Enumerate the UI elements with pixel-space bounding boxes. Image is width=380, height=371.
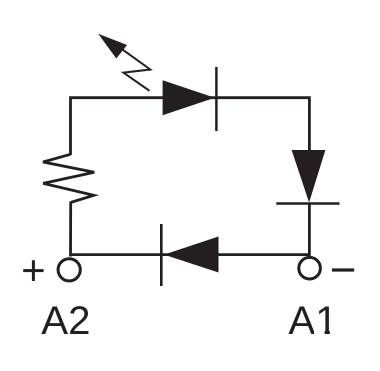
terminal A1 circle	[299, 257, 321, 279]
diode D2 cathode bar	[276, 202, 339, 205]
LED D1 cathode bar	[215, 67, 218, 131]
plus sign	[23, 260, 43, 281]
LED D1 triangle	[163, 80, 215, 115]
wire bottom horizontal	[71, 253, 310, 256]
terminal A2 circle	[58, 259, 80, 281]
diode D3 triangle	[164, 237, 219, 273]
LED arrow shaft	[122, 49, 151, 91]
resistor R	[43, 154, 94, 202]
mask foot serif of digit 1	[314, 331, 325, 336]
diode D2 triangle	[292, 150, 326, 203]
minus sign	[332, 268, 354, 271]
wire top: left corner up, across, right corner down	[71, 98, 310, 155]
wire right vertical below diode	[308, 203, 311, 256]
wire left vertical below resistor	[69, 202, 72, 257]
diode D3 cathode bar	[160, 224, 163, 286]
svg-text:A2: A2	[41, 298, 90, 343]
LED arrow head	[98, 34, 127, 59]
svg-text:A1: A1	[288, 298, 337, 343]
